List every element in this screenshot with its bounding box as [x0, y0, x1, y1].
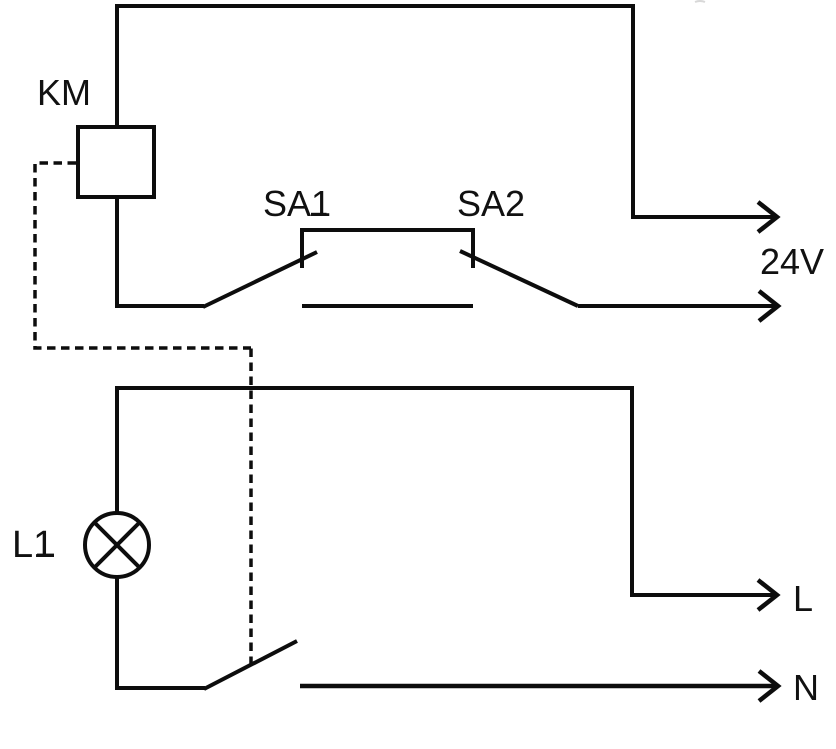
label SA1	[263, 183, 331, 224]
dashed mechanical link from KM coil to relay contact	[35, 163, 251, 664]
wire: right vertical drop of control circuit	[631, 4, 635, 217]
wire: right vertical drop of lamp circuit	[630, 386, 634, 595]
wire: traveler 2 between SA1 and SA2	[302, 304, 473, 308]
label L1	[12, 524, 54, 566]
wire: 24V feed line lower with arrow	[578, 291, 778, 321]
svg-text:KM: KM	[37, 72, 91, 113]
wire: vertical from L1 bottom	[115, 577, 119, 688]
switch SA2 fixed contact	[471, 229, 475, 268]
switch SA1 fixed contact	[300, 229, 304, 268]
wire: vertical from top bus down to KM coil top	[115, 4, 119, 127]
wire: L line with arrow	[630, 580, 777, 610]
svg-text:24V: 24V	[760, 241, 824, 282]
lamp L1 (circle with cross)	[85, 513, 149, 577]
svg-text:L1: L1	[12, 524, 54, 566]
svg-text:SA2: SA2	[457, 183, 525, 224]
wire: horizontal to KM contact pole	[115, 686, 205, 690]
wire: top horizontal bus of lamp circuit	[115, 386, 634, 390]
switch SA1 blade	[203, 252, 317, 307]
svg-text:N: N	[793, 667, 819, 708]
wire: N line with arrow	[300, 671, 778, 701]
label KM	[37, 72, 91, 113]
relay contact KM blade (normally open)	[204, 641, 297, 689]
wire: 24V feed line upper with arrow	[631, 202, 777, 232]
label SA2	[457, 183, 525, 224]
wire: horizontal to SA1 pole	[115, 304, 204, 308]
wire: traveler 1 between SA1 and SA2	[300, 228, 475, 232]
label L	[793, 578, 813, 619]
switch SA2 blade	[460, 251, 578, 306]
svg-text:L: L	[793, 578, 813, 619]
wire: vertical from KM coil bottom	[115, 197, 119, 306]
wire: top horizontal bus of control circuit	[115, 4, 633, 8]
label 24V	[760, 241, 824, 282]
wire: vertical from lamp bus down to L1 top	[115, 386, 119, 513]
svg-text:SA1: SA1	[263, 183, 331, 224]
contactor coil KM (box)	[78, 127, 154, 197]
label N	[793, 667, 819, 708]
